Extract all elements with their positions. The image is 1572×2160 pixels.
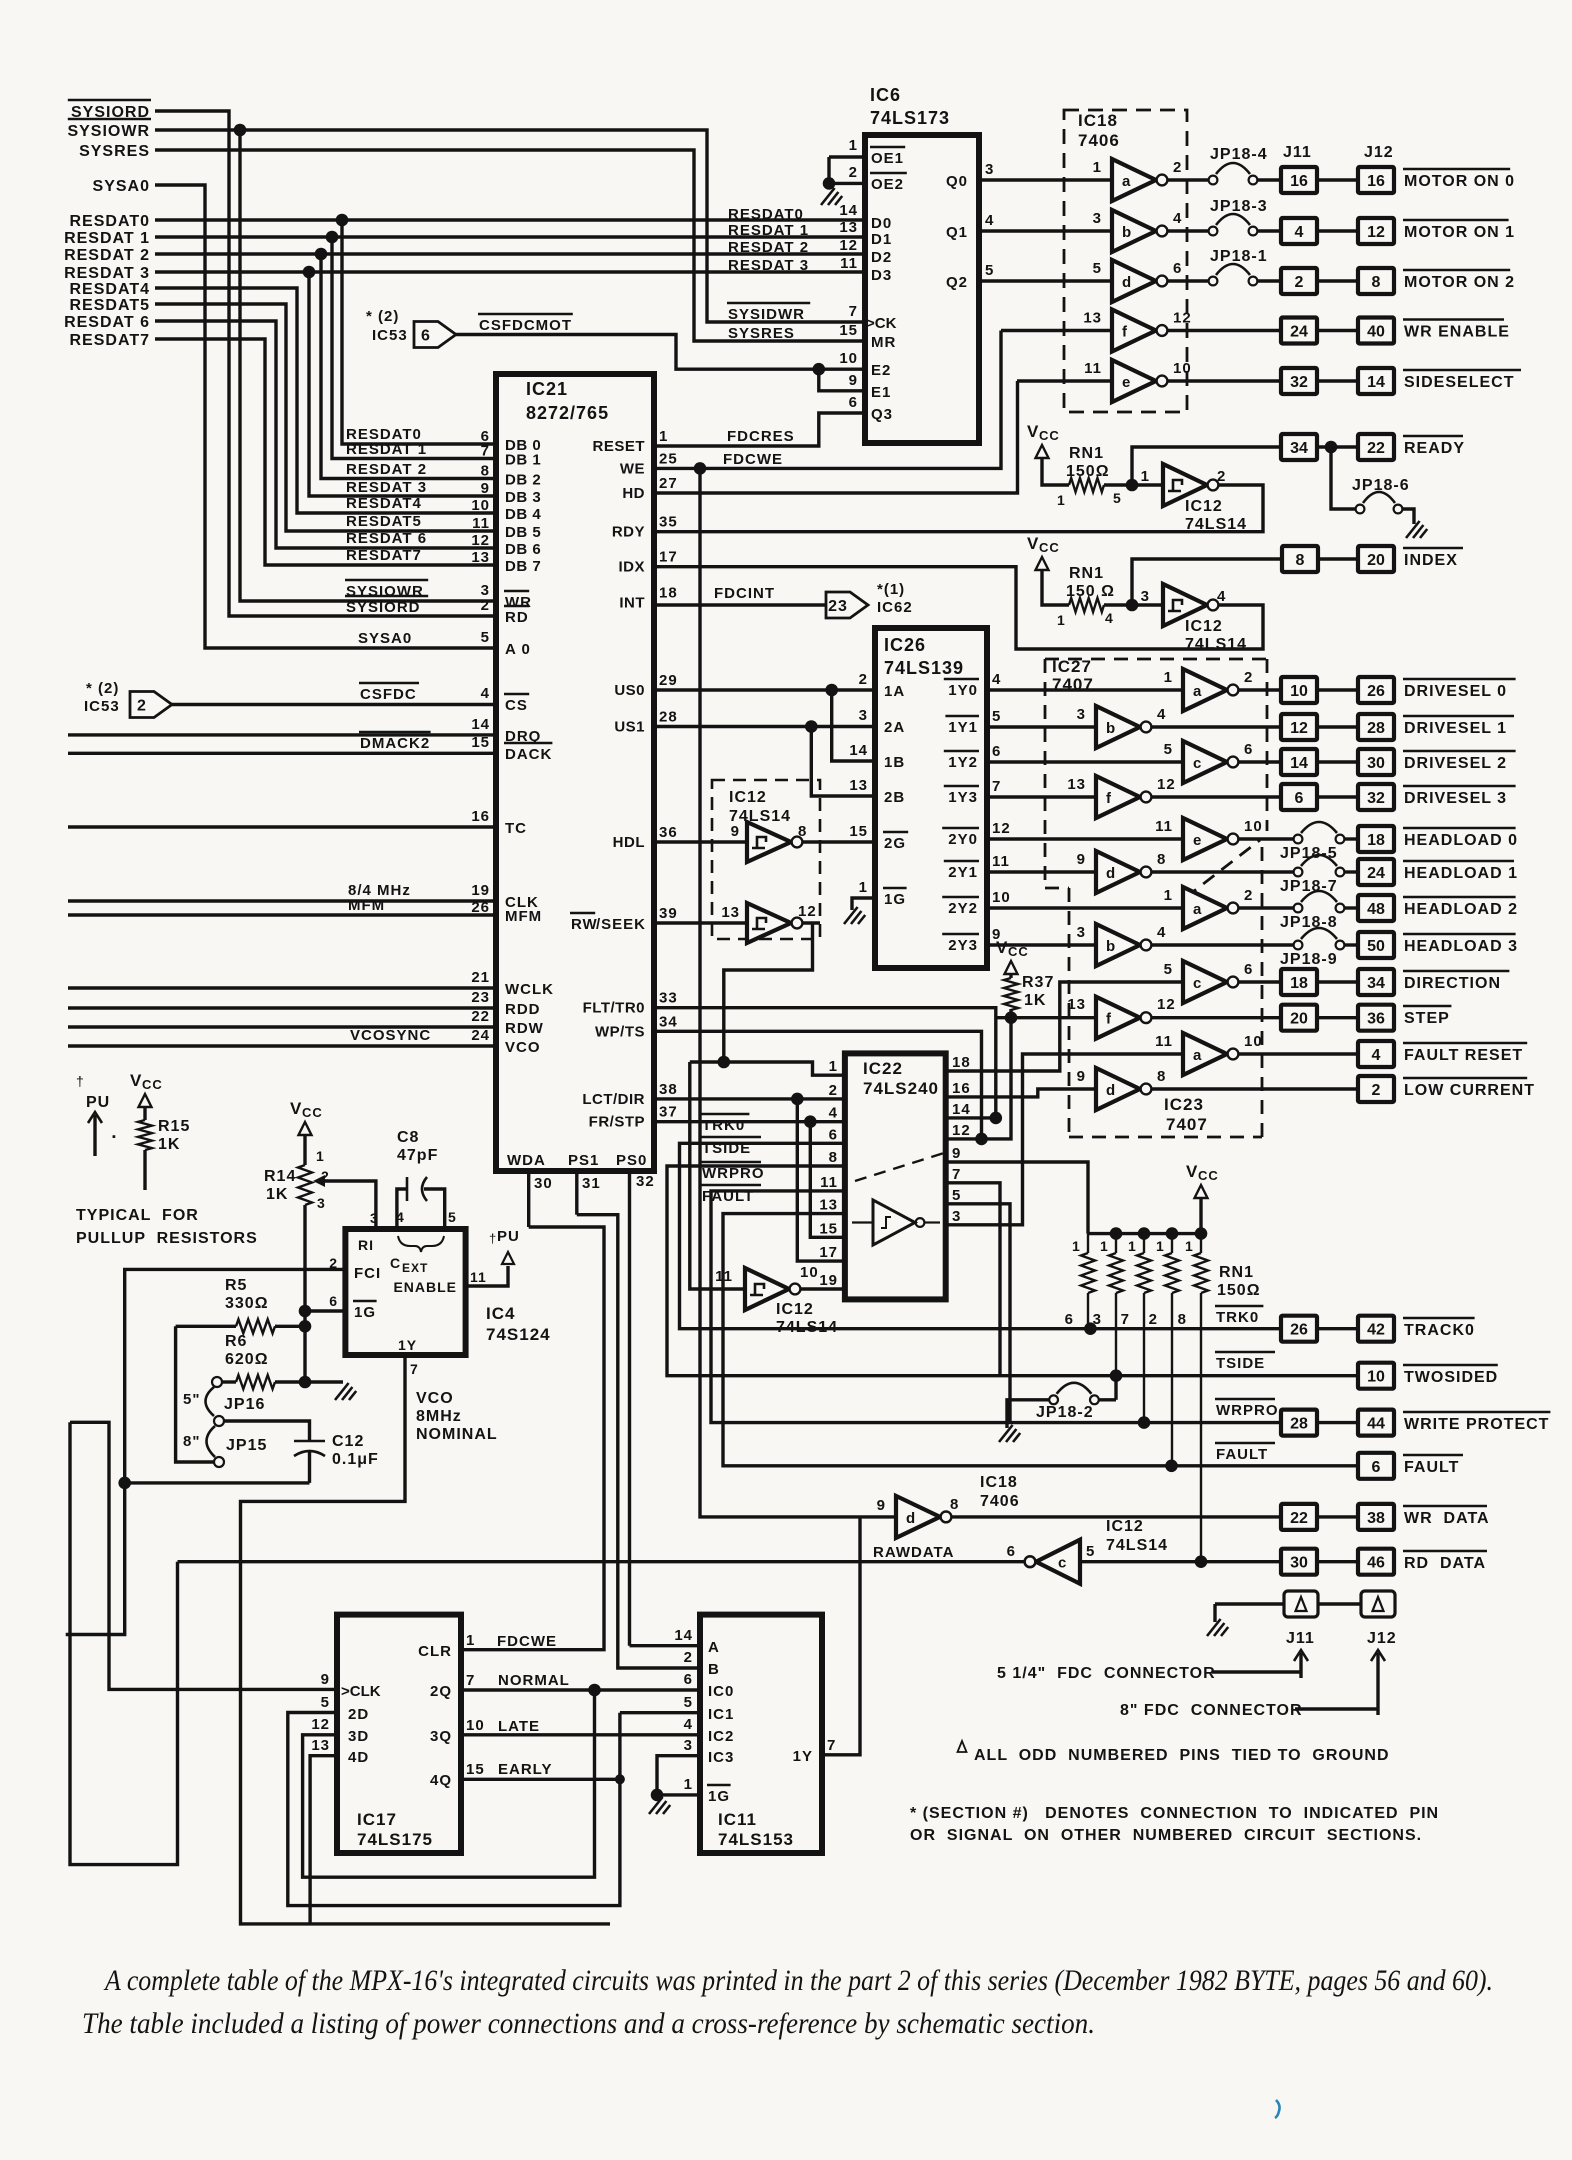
svg-text:13: 13 bbox=[471, 549, 490, 566]
svg-text:74LS14: 74LS14 bbox=[1106, 1537, 1168, 1554]
svg-text:FLT/TR0: FLT/TR0 bbox=[583, 1000, 645, 1017]
svg-text:OE2: OE2 bbox=[871, 176, 904, 193]
ground JP18-6 bbox=[1402, 509, 1414, 524]
wire IC22 pin7 down bbox=[946, 1183, 1000, 1376]
svg-text:IC18: IC18 bbox=[980, 1474, 1018, 1491]
svg-text:RN1: RN1 bbox=[1219, 1264, 1254, 1281]
svg-text:EXT: EXT bbox=[402, 1261, 428, 1275]
svg-text:V: V bbox=[996, 938, 1008, 957]
svg-text:CLR: CLR bbox=[418, 1643, 452, 1660]
wire IC21 US0 to IC26 1A bbox=[654, 688, 875, 691]
svg-text:WCLK: WCLK bbox=[505, 981, 554, 998]
svg-text:HEADLOAD 1: HEADLOAD 1 bbox=[1404, 865, 1518, 882]
connector J12 box 34 (DIRECTION) bbox=[1358, 969, 1394, 995]
svg-text:FCI: FCI bbox=[354, 1265, 381, 1282]
svg-text:MOTOR ON 0: MOTOR ON 0 bbox=[1404, 173, 1515, 190]
connector J12 box 38 (WR DATA) bbox=[1358, 1504, 1394, 1530]
wire NORMAL row bbox=[461, 1688, 700, 1691]
junction READY node bbox=[1126, 479, 1139, 492]
svg-text:1: 1 bbox=[316, 1148, 325, 1164]
resistor RN1 element pin 6 bbox=[1087, 1234, 1089, 1253]
svg-text:CC: CC bbox=[1039, 540, 1060, 555]
svg-text:12: 12 bbox=[1367, 224, 1385, 241]
junction FR/STP bbox=[804, 1115, 817, 1128]
wire RW/SEEK out stub bbox=[803, 921, 820, 924]
svg-text:47pF: 47pF bbox=[397, 1147, 438, 1164]
svg-text:13: 13 bbox=[1067, 776, 1086, 793]
wire IC21 FR/STP to IC22 pin4 bbox=[654, 1120, 845, 1123]
wire JP18-2 left to ground bbox=[1007, 1400, 1049, 1428]
wire RESDAT6 to IC21 DB6 bbox=[155, 321, 496, 548]
jumper JP18-3 bbox=[1168, 229, 1209, 232]
jumper JP18-2 bbox=[1049, 1395, 1058, 1404]
inverter U12 74LS14 (enable) bbox=[745, 1268, 789, 1310]
wire to J12 box (HEADLOAD 2) bbox=[1344, 906, 1358, 909]
ground JP18-2 bbox=[999, 1425, 1020, 1442]
svg-text:10: 10 bbox=[839, 350, 858, 367]
svg-text:DRIVESEL 3: DRIVESEL 3 bbox=[1404, 790, 1507, 807]
svg-text:RESDAT 2: RESDAT 2 bbox=[346, 461, 427, 478]
svg-text:FAULT: FAULT bbox=[1216, 1446, 1268, 1463]
svg-text:19: 19 bbox=[819, 1272, 838, 1289]
svg-text:17: 17 bbox=[659, 549, 678, 566]
junction RN1 bus bbox=[1138, 1227, 1151, 1240]
wire to J11 box (DRIVESEL 0) bbox=[1239, 688, 1281, 691]
svg-text:36: 36 bbox=[1367, 1011, 1385, 1028]
svg-text:* (SECTION #) DENOTES CONNE: * (SECTION #) DENOTES CONNECTION TO INDI… bbox=[910, 1805, 1439, 1822]
svg-text:WR DATA: WR DATA bbox=[1404, 1510, 1490, 1527]
svg-text:TRK0: TRK0 bbox=[702, 1117, 745, 1134]
junction R6 bbox=[299, 1376, 312, 1389]
svg-text:RESDAT5: RESDAT5 bbox=[70, 297, 151, 314]
svg-text:PS0: PS0 bbox=[616, 1152, 647, 1169]
svg-text:3: 3 bbox=[370, 1210, 379, 1226]
wire to J12 box (HEADLOAD 0) bbox=[1344, 837, 1358, 840]
svg-text:/SEEK: /SEEK bbox=[596, 916, 646, 933]
svg-text:IC62: IC62 bbox=[877, 599, 913, 616]
svg-text:16: 16 bbox=[1367, 173, 1385, 190]
svg-text:10: 10 bbox=[1244, 818, 1263, 835]
svg-text:2: 2 bbox=[1295, 274, 1304, 291]
svg-text:IC23: IC23 bbox=[1164, 1095, 1204, 1114]
svg-text:14: 14 bbox=[952, 1101, 971, 1118]
junction READY J12 bbox=[1325, 441, 1338, 454]
svg-text:8: 8 bbox=[481, 463, 490, 480]
svg-text:V: V bbox=[1027, 534, 1039, 553]
svg-text:PS1: PS1 bbox=[568, 1152, 599, 1169]
svg-text:IC53: IC53 bbox=[372, 327, 408, 344]
svg-text:1: 1 bbox=[849, 137, 858, 154]
svg-text:2D: 2D bbox=[348, 1706, 369, 1723]
wire JP18-2 right to TSIDE net bbox=[1099, 1398, 1116, 1401]
svg-text:28: 28 bbox=[1367, 720, 1385, 737]
svg-text:DB 3: DB 3 bbox=[505, 489, 541, 506]
svg-text:MOTOR ON 2: MOTOR ON 2 bbox=[1404, 274, 1515, 291]
svg-text:10: 10 bbox=[992, 889, 1011, 906]
connector J12 pin box 16 (MOTOR ON 0) bbox=[1358, 167, 1394, 193]
svg-text:42: 42 bbox=[1367, 1322, 1385, 1339]
svg-text:1Y: 1Y bbox=[793, 1748, 813, 1765]
wire MOTOR ON 2 J11-J12 bbox=[1317, 279, 1358, 282]
svg-text:1: 1 bbox=[1072, 1238, 1081, 1254]
svg-text:12: 12 bbox=[992, 820, 1011, 837]
svg-text:A complete table of the MPX-16: A complete table of the MPX-16's integra… bbox=[103, 1964, 1493, 1997]
svg-text:34: 34 bbox=[659, 1013, 678, 1030]
junction RESDAT3 bbox=[303, 266, 316, 279]
svg-text:12: 12 bbox=[1173, 310, 1192, 327]
wire IC11 IC1 from EARLY bbox=[620, 1711, 700, 1714]
svg-text:c: c bbox=[1058, 1555, 1066, 1572]
svg-text:12: 12 bbox=[1157, 996, 1176, 1013]
power VCC (R14) bbox=[299, 1122, 312, 1135]
svg-text:3: 3 bbox=[1141, 588, 1150, 605]
wire R5 to JP15 bottom bbox=[176, 1326, 214, 1462]
svg-text:US1: US1 bbox=[614, 719, 645, 736]
svg-text:11: 11 bbox=[472, 515, 490, 532]
wire RD DATA row bbox=[1080, 1560, 1281, 1563]
svg-text:Q3: Q3 bbox=[871, 406, 893, 423]
svg-text:1G: 1G bbox=[884, 891, 906, 908]
svg-text:2: 2 bbox=[849, 164, 858, 181]
connector J12 box 30 (DRIVESEL 2) bbox=[1358, 749, 1394, 775]
connector J12 box 48 (HEADLOAD 2) bbox=[1358, 895, 1394, 921]
svg-text:4: 4 bbox=[396, 1209, 405, 1225]
connector J12 box 20 (INDEX) bbox=[1358, 546, 1394, 572]
wire RESDAT0 bus bbox=[155, 218, 865, 221]
svg-text:1: 1 bbox=[1164, 669, 1173, 686]
svg-text:RESDAT 1: RESDAT 1 bbox=[346, 441, 427, 458]
svg-text:TWOSIDED: TWOSIDED bbox=[1404, 1369, 1498, 1386]
inverter U12 c (RD DATA, points left) bbox=[1036, 1540, 1080, 1584]
svg-text:6: 6 bbox=[1173, 260, 1182, 277]
connector J12 box 4 (FAULT RESET) bbox=[1358, 1041, 1394, 1067]
wire IC22 pin16 to LOW CURRENT buffer bbox=[946, 1089, 1096, 1097]
jumper JP18-1 bbox=[1168, 279, 1209, 282]
svg-text:TRACK0: TRACK0 bbox=[1404, 1322, 1475, 1339]
resistor RN1 element pin 8 bbox=[1200, 1234, 1202, 1253]
svg-text:3: 3 bbox=[1077, 924, 1086, 941]
wire 34-22 bbox=[1317, 445, 1358, 448]
svg-text:CSFDC: CSFDC bbox=[360, 686, 417, 703]
svg-text:1: 1 bbox=[1141, 468, 1150, 485]
svg-text:a: a bbox=[1122, 173, 1131, 190]
svg-text:SYSRES: SYSRES bbox=[79, 143, 150, 160]
inverter b row MOTOR ON 1 bbox=[1112, 210, 1156, 252]
wire IC21 FLT/TR0 to IC22 pin14 bbox=[654, 1008, 996, 1119]
connector J11 box 8 (INDEX) bbox=[1282, 546, 1318, 572]
wire EARLY feedback bbox=[288, 1713, 620, 1906]
svg-text:IC12: IC12 bbox=[1185, 498, 1223, 515]
svg-text:15: 15 bbox=[849, 823, 868, 840]
svg-text:FDCWE: FDCWE bbox=[723, 451, 783, 468]
wire TC stub bbox=[68, 825, 496, 828]
wire IC26 to buffer b bbox=[987, 943, 1096, 946]
inverter U12 RW/SEEK bbox=[747, 903, 791, 943]
svg-text:74LS139: 74LS139 bbox=[884, 658, 964, 678]
svg-text:18: 18 bbox=[1290, 975, 1308, 992]
svg-text:WRITE PROTECT: WRITE PROTECT bbox=[1404, 1416, 1549, 1433]
svg-text:18: 18 bbox=[659, 584, 678, 601]
svg-text:1Y2: 1Y2 bbox=[948, 754, 978, 771]
svg-text:JP15: JP15 bbox=[226, 1437, 267, 1454]
wire SYSRES to IC6 MR bbox=[155, 150, 865, 341]
wire d gate to 22 box bbox=[952, 1515, 1281, 1518]
svg-text:WRPRO: WRPRO bbox=[702, 1165, 765, 1182]
svg-text:LOW CURRENT: LOW CURRENT bbox=[1404, 1082, 1535, 1099]
svg-text:2: 2 bbox=[1173, 159, 1182, 176]
power VCC (RN1 bottom) bbox=[1195, 1185, 1208, 1198]
resistor R15 1K bbox=[138, 1120, 152, 1150]
svg-text:74S124: 74S124 bbox=[486, 1325, 551, 1344]
svg-text:CC: CC bbox=[142, 1077, 163, 1092]
wire WCLK stub bbox=[68, 986, 496, 989]
jumper JP18-6 bbox=[1331, 447, 1356, 509]
svg-text:V: V bbox=[290, 1099, 302, 1118]
svg-text:JP18-4: JP18-4 bbox=[1210, 146, 1268, 163]
wire IC12 out to IC21 IDX bbox=[654, 567, 1263, 649]
svg-text:2: 2 bbox=[829, 1082, 838, 1099]
svg-text:22: 22 bbox=[471, 1008, 490, 1025]
svg-text:4D: 4D bbox=[348, 1749, 369, 1766]
svg-text:INDEX: INDEX bbox=[1404, 552, 1458, 569]
svg-text:IC12: IC12 bbox=[1185, 618, 1223, 635]
svg-text:JP18-7: JP18-7 bbox=[1280, 878, 1338, 895]
inverter f row WR ENABLE bbox=[1112, 310, 1156, 352]
svg-text:CC: CC bbox=[302, 1105, 323, 1120]
junction R37/STEP bbox=[1005, 1011, 1018, 1024]
svg-text:24: 24 bbox=[1367, 865, 1385, 882]
svg-text:1Y0: 1Y0 bbox=[948, 682, 978, 699]
buffer b row DRIVESEL 1 bbox=[1096, 706, 1140, 748]
wire to J12 box (HEADLOAD 3) bbox=[1344, 943, 1358, 946]
svg-text:14: 14 bbox=[1367, 374, 1385, 391]
svg-text:10: 10 bbox=[466, 1717, 485, 1734]
connector J12 box 10 (TWOSIDED) bbox=[1358, 1363, 1394, 1389]
wire VCC to R14 bbox=[303, 1135, 306, 1165]
connector J12 box 32 (DRIVESEL 3) bbox=[1358, 784, 1394, 810]
svg-text:RAWDATA: RAWDATA bbox=[873, 1544, 954, 1561]
svg-text:6: 6 bbox=[1372, 1459, 1381, 1476]
wire IC26 to buffer b bbox=[987, 725, 1096, 728]
svg-text:16: 16 bbox=[952, 1080, 971, 1097]
svg-text:c: c bbox=[1193, 975, 1201, 992]
inverter U12 74LS14 (INDEX) bbox=[1163, 584, 1207, 626]
wire pin4 net to pin15 bbox=[810, 1122, 845, 1238]
junction RESDAT2 bbox=[315, 248, 328, 261]
svg-text:9: 9 bbox=[849, 372, 858, 389]
wire IC21 INT to flag bbox=[654, 603, 826, 606]
power VCC (R37) bbox=[1005, 961, 1018, 974]
svg-text:2: 2 bbox=[1244, 887, 1253, 904]
svg-text:4: 4 bbox=[1295, 224, 1304, 241]
junction RN1/TWOSIDED bbox=[1110, 1369, 1123, 1382]
wire VCC to RN1 bus bbox=[1199, 1198, 1202, 1234]
svg-text:DB 6: DB 6 bbox=[505, 541, 541, 558]
svg-text:9: 9 bbox=[1077, 1068, 1086, 1085]
junction RESDAT0 bbox=[336, 214, 349, 227]
wire IC21 WP/TS to IC22 pin12 bbox=[654, 1031, 982, 1139]
wire CSFDC to IC21 CS bbox=[172, 703, 496, 706]
svg-text:6: 6 bbox=[992, 743, 1001, 760]
wire 4D from 8MHz bbox=[310, 1756, 337, 1924]
wire FCI net bbox=[66, 1269, 346, 1634]
svg-text:7406: 7406 bbox=[980, 1493, 1020, 1510]
svg-text:b: b bbox=[1106, 720, 1115, 737]
svg-text:D0: D0 bbox=[871, 215, 892, 232]
wire R6 node to ground bbox=[305, 1380, 343, 1383]
svg-text:CS: CS bbox=[505, 697, 528, 714]
IC U23 7407 dashed outline bbox=[1045, 887, 1069, 890]
svg-text:1K: 1K bbox=[1024, 992, 1046, 1009]
svg-text:28: 28 bbox=[659, 709, 678, 726]
wire NORMAL feedback bbox=[303, 1690, 595, 1877]
wire RESDAT0 to IC21 DB0 bbox=[342, 220, 496, 444]
power VCC (READY pullup) bbox=[1036, 445, 1049, 458]
svg-text:74LS153: 74LS153 bbox=[718, 1830, 794, 1849]
connector J12 box 6 (FAULT) bbox=[1358, 1453, 1394, 1479]
svg-text:EARLY: EARLY bbox=[498, 1761, 552, 1778]
IC U4 74S124 body bbox=[345, 1229, 465, 1355]
svg-text:2Y3: 2Y3 bbox=[948, 937, 978, 954]
svg-text:8: 8 bbox=[1296, 552, 1305, 569]
svg-text:32: 32 bbox=[1290, 374, 1308, 391]
svg-text:20: 20 bbox=[1367, 552, 1385, 569]
connector J12 box 50 (HEADLOAD 3) bbox=[1358, 932, 1394, 958]
wire IC26 to buffer a bbox=[987, 688, 1183, 691]
svg-text:74LS240: 74LS240 bbox=[863, 1079, 939, 1098]
svg-text:35: 35 bbox=[659, 514, 678, 531]
svg-text:5: 5 bbox=[985, 262, 994, 279]
svg-text:24: 24 bbox=[471, 1027, 490, 1044]
svg-text:VCO: VCO bbox=[505, 1039, 541, 1056]
svg-text:4: 4 bbox=[684, 1716, 693, 1733]
svg-text:TSIDE: TSIDE bbox=[702, 1140, 751, 1157]
svg-text:2Q: 2Q bbox=[430, 1683, 452, 1700]
wire C12 to FCI net bbox=[125, 1481, 310, 1484]
svg-text:22: 22 bbox=[1367, 440, 1385, 457]
svg-text:5: 5 bbox=[1113, 490, 1122, 506]
svg-text:2Y0: 2Y0 bbox=[948, 831, 978, 848]
svg-text:RN1: RN1 bbox=[1069, 565, 1104, 582]
svg-text:J11: J11 bbox=[1286, 1630, 1315, 1647]
wire 8-20 bbox=[1318, 557, 1358, 560]
legend VCC R15 bbox=[139, 1094, 152, 1107]
dashed split IC27/IC23 bbox=[1185, 840, 1260, 898]
connector J12 pin box 8 (MOTOR ON 2) bbox=[1358, 268, 1394, 294]
svg-text:9: 9 bbox=[952, 1145, 961, 1162]
svg-text:3: 3 bbox=[952, 1208, 961, 1225]
svg-text:J11: J11 bbox=[1283, 144, 1312, 161]
wire WDA/FDCWE to IC17 CLR bbox=[461, 1227, 604, 1650]
connector J11 box 30 (RD DATA) bbox=[1281, 1549, 1317, 1575]
junction RN1 bus bbox=[1195, 1227, 1208, 1240]
svg-text:RESDAT 3: RESDAT 3 bbox=[64, 265, 150, 282]
connector J11 box 6 (DRIVESEL 3) bbox=[1281, 784, 1317, 810]
svg-text:7: 7 bbox=[1121, 1311, 1130, 1328]
connector J12 box 42 (TRACK0) bbox=[1358, 1316, 1394, 1342]
wire IC26 to buffer d bbox=[987, 870, 1096, 873]
power VCC (INDEX pullup) bbox=[1036, 557, 1049, 570]
svg-text:8: 8 bbox=[829, 1149, 838, 1166]
svg-text:4: 4 bbox=[992, 671, 1001, 688]
wire PS1 jog bbox=[577, 1215, 700, 1668]
wire pin2 net to pin17 bbox=[797, 1099, 845, 1261]
IC U21 8272/765 body bbox=[496, 374, 654, 1171]
svg-text:IC12: IC12 bbox=[1106, 1518, 1144, 1535]
buffer a row FAULT RESET bbox=[1183, 1033, 1227, 1075]
svg-text:3: 3 bbox=[985, 161, 994, 178]
svg-text:RESDAT 2: RESDAT 2 bbox=[728, 239, 809, 256]
svg-text:1: 1 bbox=[684, 1776, 693, 1793]
svg-text:PU: PU bbox=[497, 1228, 520, 1245]
resistor RN1 150ohm (READY) bbox=[1069, 478, 1104, 492]
svg-text:FAULT: FAULT bbox=[702, 1188, 754, 1205]
junction INDEX node bbox=[1126, 599, 1139, 612]
junction RESDAT1 bbox=[326, 231, 339, 244]
wire RAWDATA to left bbox=[178, 1560, 1025, 1563]
svg-text:4: 4 bbox=[1157, 924, 1166, 941]
svg-text:IC6: IC6 bbox=[870, 85, 901, 105]
svg-text:US0: US0 bbox=[614, 682, 645, 699]
svg-text:7406: 7406 bbox=[1078, 131, 1120, 150]
svg-text:FAULT: FAULT bbox=[1404, 1459, 1459, 1476]
svg-text:VCO: VCO bbox=[416, 1390, 454, 1407]
wire SYSIORD to IC21 RD bbox=[155, 111, 496, 616]
wire OE1-OE2 tie bbox=[827, 157, 830, 183]
wire IC26 to buffer c bbox=[987, 760, 1183, 763]
svg-text:>CK: >CK bbox=[866, 315, 897, 332]
wire IC12 out to IC21 RDY bbox=[654, 485, 1263, 532]
arrow to J12 bbox=[1376, 1653, 1379, 1715]
svg-text:JP18-3: JP18-3 bbox=[1210, 198, 1268, 215]
svg-text:8" FDC CONNECTOR: 8" FDC CONNECTOR bbox=[1120, 1702, 1303, 1719]
inverter U12 HDL bbox=[747, 822, 791, 862]
svg-text:150Ω: 150Ω bbox=[1217, 1282, 1261, 1299]
svg-text:ALL ODD NUMBERED PINS TIED: ALL ODD NUMBERED PINS TIED TO GROUND bbox=[974, 1747, 1390, 1764]
svg-text:RESDAT7: RESDAT7 bbox=[346, 547, 422, 564]
wire to J11 box (DRIVESEL 2) bbox=[1239, 760, 1281, 763]
svg-text:14: 14 bbox=[1290, 755, 1308, 772]
jumper JP15 bbox=[207, 1426, 216, 1457]
svg-text:12: 12 bbox=[311, 1716, 330, 1733]
svg-text:c: c bbox=[1193, 755, 1201, 772]
connector J11 box 14 (DRIVESEL 2) bbox=[1281, 749, 1317, 775]
junction FLT/TR0 pin14 bbox=[990, 1112, 1003, 1125]
svg-text:J12: J12 bbox=[1364, 144, 1394, 161]
svg-text:13: 13 bbox=[1067, 996, 1086, 1013]
svg-text:14: 14 bbox=[839, 202, 858, 219]
svg-text:2A: 2A bbox=[884, 719, 905, 736]
svg-text:5: 5 bbox=[952, 1187, 961, 1204]
svg-text:V: V bbox=[1186, 1162, 1198, 1181]
wire IC26 to buffer f bbox=[987, 795, 1096, 798]
resistor RN1 150ohm (INDEX) bbox=[1069, 598, 1104, 612]
svg-text:4: 4 bbox=[481, 685, 490, 702]
svg-text:9: 9 bbox=[877, 1497, 886, 1514]
svg-text:OE1: OE1 bbox=[871, 150, 904, 167]
buffer c row DIRECTION bbox=[1183, 961, 1227, 1003]
svg-text:330Ω: 330Ω bbox=[225, 1295, 269, 1312]
off-page flag IC53-2 CSFDC bbox=[130, 692, 172, 718]
buffer e row HEADLOAD 0 bbox=[1183, 818, 1227, 860]
connector J12 box 36 (STEP) bbox=[1358, 1005, 1394, 1031]
svg-text:1K: 1K bbox=[266, 1186, 288, 1203]
svg-text:1G: 1G bbox=[708, 1788, 730, 1805]
svg-text:MFM: MFM bbox=[505, 908, 542, 925]
svg-text:JP18-2: JP18-2 bbox=[1036, 1404, 1094, 1421]
svg-text:11: 11 bbox=[820, 1174, 838, 1191]
svg-text:RESDAT 6: RESDAT 6 bbox=[346, 530, 427, 547]
